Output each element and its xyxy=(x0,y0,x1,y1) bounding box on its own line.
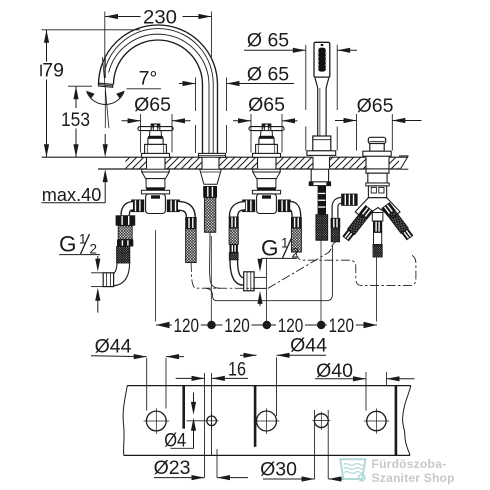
valve V1 shank through deck xyxy=(147,157,166,170)
hand shower shank through deck xyxy=(313,157,330,170)
valve V1 right hose chain xyxy=(185,217,196,262)
svg-text:G: G xyxy=(59,232,77,257)
diverter shower-supply nut and elbow xyxy=(335,194,358,218)
valve V1 left supply elbow pipe xyxy=(114,263,130,286)
svg-text:Ø65: Ø65 xyxy=(248,94,285,116)
label G 1/2 (left connection) xyxy=(59,232,100,313)
center line spout xyxy=(210,236,212,322)
diverter escutcheon xyxy=(363,151,391,156)
label G 1/2 (middle connection) xyxy=(257,236,299,307)
valve V1 cross handle xyxy=(138,124,173,135)
valve V1 left hose chain xyxy=(116,215,136,263)
svg-text:Ø4: Ø4 xyxy=(164,429,186,451)
hole C3 D30 (hand shower) xyxy=(312,412,330,431)
dimension D40 (diverter hole) xyxy=(315,360,415,411)
hand shower handle xyxy=(315,77,329,136)
svg-text:Ø44: Ø44 xyxy=(290,335,327,357)
center line valve V1 xyxy=(155,230,157,322)
center line valve V2 xyxy=(266,258,268,322)
dimension 153 (spout outlet height) xyxy=(61,86,92,157)
svg-text:120: 120 xyxy=(174,315,200,337)
mounting deck (side view, hatched) xyxy=(42,157,408,169)
svg-text:Ø 65: Ø 65 xyxy=(247,29,289,51)
svg-text:Ø40: Ø40 xyxy=(316,360,353,382)
svg-text:max.40: max.40 xyxy=(42,184,102,205)
svg-text:Ø23: Ø23 xyxy=(154,457,191,479)
spout base plate xyxy=(199,153,226,157)
spout outlet axis lines (7 deg) xyxy=(102,57,109,128)
valve V1 side ports xyxy=(131,200,180,213)
hole D4 pilot (hand shower side) xyxy=(205,413,219,430)
shop watermark text xyxy=(372,457,455,485)
valve V2 left elbow to G 1/2 fitting xyxy=(234,260,244,281)
dimension 16 xyxy=(176,359,248,478)
hose route bus to diverter left arm xyxy=(213,242,336,300)
diverter shank through deck xyxy=(366,157,389,170)
dimension 279 (left height) xyxy=(40,30,140,157)
deck break symbol (right end) xyxy=(399,156,408,169)
spout outlet aerator xyxy=(99,83,113,87)
svg-text:Ø65: Ø65 xyxy=(357,95,394,117)
svg-text:Ø44: Ø44 xyxy=(95,335,132,357)
hand shower hose connection xyxy=(316,186,328,241)
dimension D44 right xyxy=(240,335,327,416)
valve V2 right hose chain xyxy=(291,217,302,252)
hand shower below-deck shank xyxy=(309,169,330,185)
diverter right diagonal hose xyxy=(381,202,414,241)
valve V2 right elbow xyxy=(290,206,296,217)
diverter center hose xyxy=(372,213,383,258)
slot line middle (valve V2 area) xyxy=(254,386,257,447)
hose route from V1 right xyxy=(191,246,332,289)
dimension D65 valve V1 xyxy=(122,94,191,152)
diverter left diagonal hose xyxy=(342,205,374,242)
dimension D65 valve V2 xyxy=(233,94,298,153)
dimension D4 (pilot hole) xyxy=(164,393,205,452)
svg-text:Ø 65: Ø 65 xyxy=(247,64,289,86)
diverter far-left vertical hose (shower supply) xyxy=(331,218,341,242)
center line hand shower xyxy=(320,241,322,322)
diverter below-deck body xyxy=(355,169,400,218)
deck top view outline xyxy=(123,386,411,456)
svg-text:230: 230 xyxy=(143,6,177,28)
center line diverter xyxy=(376,257,378,322)
valve V2 left hose chain xyxy=(229,217,239,261)
valve V1 valve bonnet and body xyxy=(145,131,167,154)
svg-text:Ø65: Ø65 xyxy=(134,94,171,116)
hole C4 D40 (diverter) xyxy=(364,408,389,433)
dimension D65 hand shower xyxy=(244,29,357,150)
valve V2 cross handle xyxy=(249,124,284,135)
dimension chain 120 x4 xyxy=(156,315,377,337)
valve V1 left elbow xyxy=(125,206,133,216)
valve V1 right elbow xyxy=(178,206,191,217)
svg-text:Fürdöszoba-: Fürdöszoba- xyxy=(372,457,447,471)
swivel arc with arrows xyxy=(86,91,124,105)
spout shank through deck xyxy=(202,157,219,170)
shop watermark icon (basin) xyxy=(340,459,365,481)
valve V1 escutcheon xyxy=(142,153,170,157)
dimension D23 xyxy=(154,457,248,480)
valve V2 shank through deck xyxy=(258,157,277,170)
slot line left (valve V1 area) xyxy=(182,386,185,429)
angle label 7 deg xyxy=(127,68,162,90)
svg-text:Szaniter Shop: Szaniter Shop xyxy=(372,471,455,485)
svg-text:120: 120 xyxy=(224,315,250,337)
dimension 230 (top) xyxy=(105,6,212,78)
svg-text:153: 153 xyxy=(61,109,90,131)
hand shower holder xyxy=(313,136,331,151)
hose route from V2 right to diverter right arm xyxy=(296,252,416,285)
dimension D65 spout xyxy=(179,64,294,153)
dimension D30 xyxy=(260,410,356,482)
hose route corner junction xyxy=(206,288,213,296)
valve V2 left elbow xyxy=(234,206,245,217)
svg-text:120: 120 xyxy=(329,315,355,337)
spout curved tube xyxy=(99,25,218,154)
svg-text:79: 79 xyxy=(42,60,64,82)
dimension D44 left xyxy=(91,335,184,410)
G 1/2 elbow fitting (middle) xyxy=(244,272,267,291)
valve V1 below-deck valve body xyxy=(141,169,169,213)
svg-text:Ø30: Ø30 xyxy=(260,459,297,481)
G 1/2 elbow fitting (left) xyxy=(91,273,114,287)
diverter knob xyxy=(368,137,385,151)
valve V2 escutcheon xyxy=(253,153,281,157)
spout below-deck shank and hose xyxy=(200,169,222,232)
hand shower head xyxy=(314,42,330,77)
dimension D65 diverter xyxy=(335,95,422,150)
valve V2 valve bonnet and body xyxy=(256,131,278,154)
hand shower escutcheon xyxy=(307,151,336,156)
svg-text:16: 16 xyxy=(228,359,246,381)
hose route from spout xyxy=(210,232,220,288)
hole C1 D44 (valve V1) xyxy=(144,408,170,434)
svg-text:7°: 7° xyxy=(139,68,158,90)
dimension max.40 (deck thickness) xyxy=(42,134,108,205)
valve V2 below-deck valve body xyxy=(252,169,280,213)
svg-text:G: G xyxy=(261,236,279,261)
hole C2 D44 (valve V2) xyxy=(254,408,280,434)
valve V2 side ports xyxy=(242,200,291,213)
slot line right (diverter area) xyxy=(395,386,398,456)
